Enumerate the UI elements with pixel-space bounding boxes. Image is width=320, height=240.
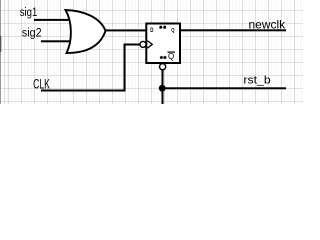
svg-text:D: D <box>150 27 153 34</box>
svg-text:Q: Q <box>168 52 174 61</box>
svg-text:sig1: sig1 <box>20 6 38 19</box>
svg-text:CLK: CLK <box>33 77 50 93</box>
svg-text:newclk: newclk <box>249 18 287 32</box>
svg-text:rst_b: rst_b <box>243 74 270 86</box>
svg-text:Q: Q <box>171 28 174 35</box>
svg-text:sig2: sig2 <box>22 27 42 40</box>
